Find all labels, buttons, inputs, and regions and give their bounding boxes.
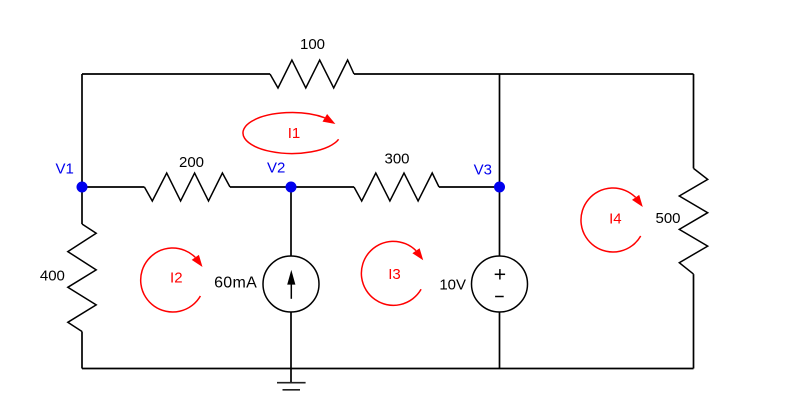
svg-text:I4: I4 [609, 211, 622, 228]
svg-text:V1: V1 [56, 160, 74, 177]
svg-text:10V: 10V [439, 276, 466, 293]
svg-text:100: 100 [300, 36, 325, 53]
svg-text:V3: V3 [474, 162, 492, 179]
svg-text:I1: I1 [288, 125, 301, 142]
svg-text:200: 200 [179, 154, 204, 171]
svg-text:I3: I3 [388, 266, 401, 283]
svg-text:400: 400 [40, 268, 65, 285]
svg-text:60mA: 60mA [214, 275, 257, 292]
svg-text:I2: I2 [170, 269, 183, 286]
svg-text:300: 300 [384, 151, 409, 168]
svg-text:500: 500 [655, 210, 680, 227]
svg-text:V2: V2 [267, 160, 285, 177]
